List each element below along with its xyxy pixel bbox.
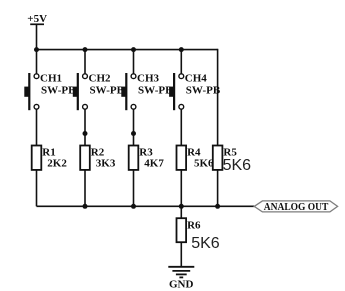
resistor R3 xyxy=(129,146,139,170)
svg-text:2K2: 2K2 xyxy=(47,158,67,170)
push button SW2 CH2 xyxy=(73,73,88,110)
svg-text:SW-PB: SW-PB xyxy=(41,85,76,97)
svg-text:R1: R1 xyxy=(42,146,55,158)
resistor R1 xyxy=(32,146,42,170)
label CH1 xyxy=(40,72,62,84)
label SW-PB 4 xyxy=(186,85,221,97)
label GND xyxy=(169,279,194,291)
wire R4 to bottom rail xyxy=(180,170,182,206)
label CH2 xyxy=(89,72,112,84)
svg-text:CH3: CH3 xyxy=(137,72,160,84)
label R4 xyxy=(187,146,201,158)
value 2K2 xyxy=(47,158,67,170)
resistor R4 xyxy=(177,146,187,170)
svg-text:5K6: 5K6 xyxy=(191,235,220,252)
junction dot rail col1 xyxy=(34,47,39,52)
wire rail to SW2 xyxy=(84,50,86,74)
wire rail to SW1 xyxy=(36,50,38,74)
label R2 xyxy=(91,146,105,158)
push button SW3 CH3 xyxy=(121,73,136,110)
wire SW2 to R2 xyxy=(84,109,86,145)
svg-text:+5V: +5V xyxy=(27,13,47,25)
svg-text:GND: GND xyxy=(169,279,194,291)
wire R6 to ground xyxy=(180,242,182,267)
push button SW4 CH4 xyxy=(169,73,184,110)
junction dot rail col4 xyxy=(179,47,184,52)
junction dot bottom col5 xyxy=(215,204,220,209)
svg-text:4K7: 4K7 xyxy=(144,158,164,170)
junction dot col2 mid xyxy=(83,131,88,136)
wire SW1 to R1 xyxy=(36,109,38,145)
junction dot bottom col2 xyxy=(83,204,88,209)
wire rail corner to R5 xyxy=(217,49,219,146)
svg-text:R3: R3 xyxy=(139,146,153,158)
svg-text:SW-PB: SW-PB xyxy=(90,85,125,97)
label R6 xyxy=(187,219,201,231)
junction dot rail col3 xyxy=(131,47,136,52)
svg-text:3K3: 3K3 xyxy=(96,158,116,170)
wire bottom rail xyxy=(37,205,255,207)
svg-text:CH1: CH1 xyxy=(40,72,62,84)
resistor R2 xyxy=(80,146,90,170)
wire R2 to bottom rail xyxy=(84,170,86,206)
label R3 xyxy=(139,146,153,158)
value 4K7 xyxy=(144,158,164,170)
ground symbol xyxy=(168,267,194,278)
label SW-PB 1 xyxy=(41,85,76,97)
label SW-PB 2 xyxy=(90,85,125,97)
wire R1 to bottom rail xyxy=(36,170,38,206)
wire +5V to rail xyxy=(36,24,38,49)
wire rail to R6 xyxy=(180,206,182,218)
svg-text:5K6: 5K6 xyxy=(194,158,214,170)
svg-text:CH2: CH2 xyxy=(89,72,112,84)
junction dot col3 mid xyxy=(131,131,136,136)
label CH3 xyxy=(137,72,160,84)
junction dot rail col2 xyxy=(83,47,88,52)
svg-text:R2: R2 xyxy=(91,146,105,158)
svg-text:ANALOG OUT: ANALOG OUT xyxy=(264,201,329,213)
svg-text:R4: R4 xyxy=(187,146,201,158)
wire top rail xyxy=(37,49,218,51)
value 5K6 R5 xyxy=(223,157,252,174)
label SW-PB 3 xyxy=(138,85,173,97)
resistor R5 xyxy=(213,146,223,170)
wire R3 to bottom rail xyxy=(133,170,135,206)
svg-text:5K6: 5K6 xyxy=(223,157,252,174)
power +5V bar symbol xyxy=(30,23,44,25)
label CH4 xyxy=(185,72,208,84)
svg-text:R6: R6 xyxy=(187,219,201,231)
svg-text:SW-PB: SW-PB xyxy=(138,85,173,97)
svg-text:CH4: CH4 xyxy=(185,72,208,84)
resistor R6 xyxy=(177,218,187,242)
wire rail to SW3 xyxy=(133,50,135,74)
wire SW4 to R4 xyxy=(180,109,182,145)
power +5V label xyxy=(27,13,47,25)
label R1 xyxy=(42,146,55,158)
push button SW1 CH1 xyxy=(24,73,39,110)
wire rail to SW4 xyxy=(180,50,182,74)
wire SW3 to R3 xyxy=(133,109,135,145)
junction dot bottom col3 xyxy=(131,204,136,209)
label R5 xyxy=(223,146,237,158)
junction dot bottom col4 xyxy=(179,204,184,209)
value 3K3 xyxy=(96,158,116,170)
net tag ANALOG OUT xyxy=(254,201,337,213)
value 5K6 R6 xyxy=(191,235,220,252)
wire R5 to bottom rail xyxy=(217,170,219,206)
value 5K6 R4 xyxy=(194,158,214,170)
svg-text:SW-PB: SW-PB xyxy=(186,85,221,97)
